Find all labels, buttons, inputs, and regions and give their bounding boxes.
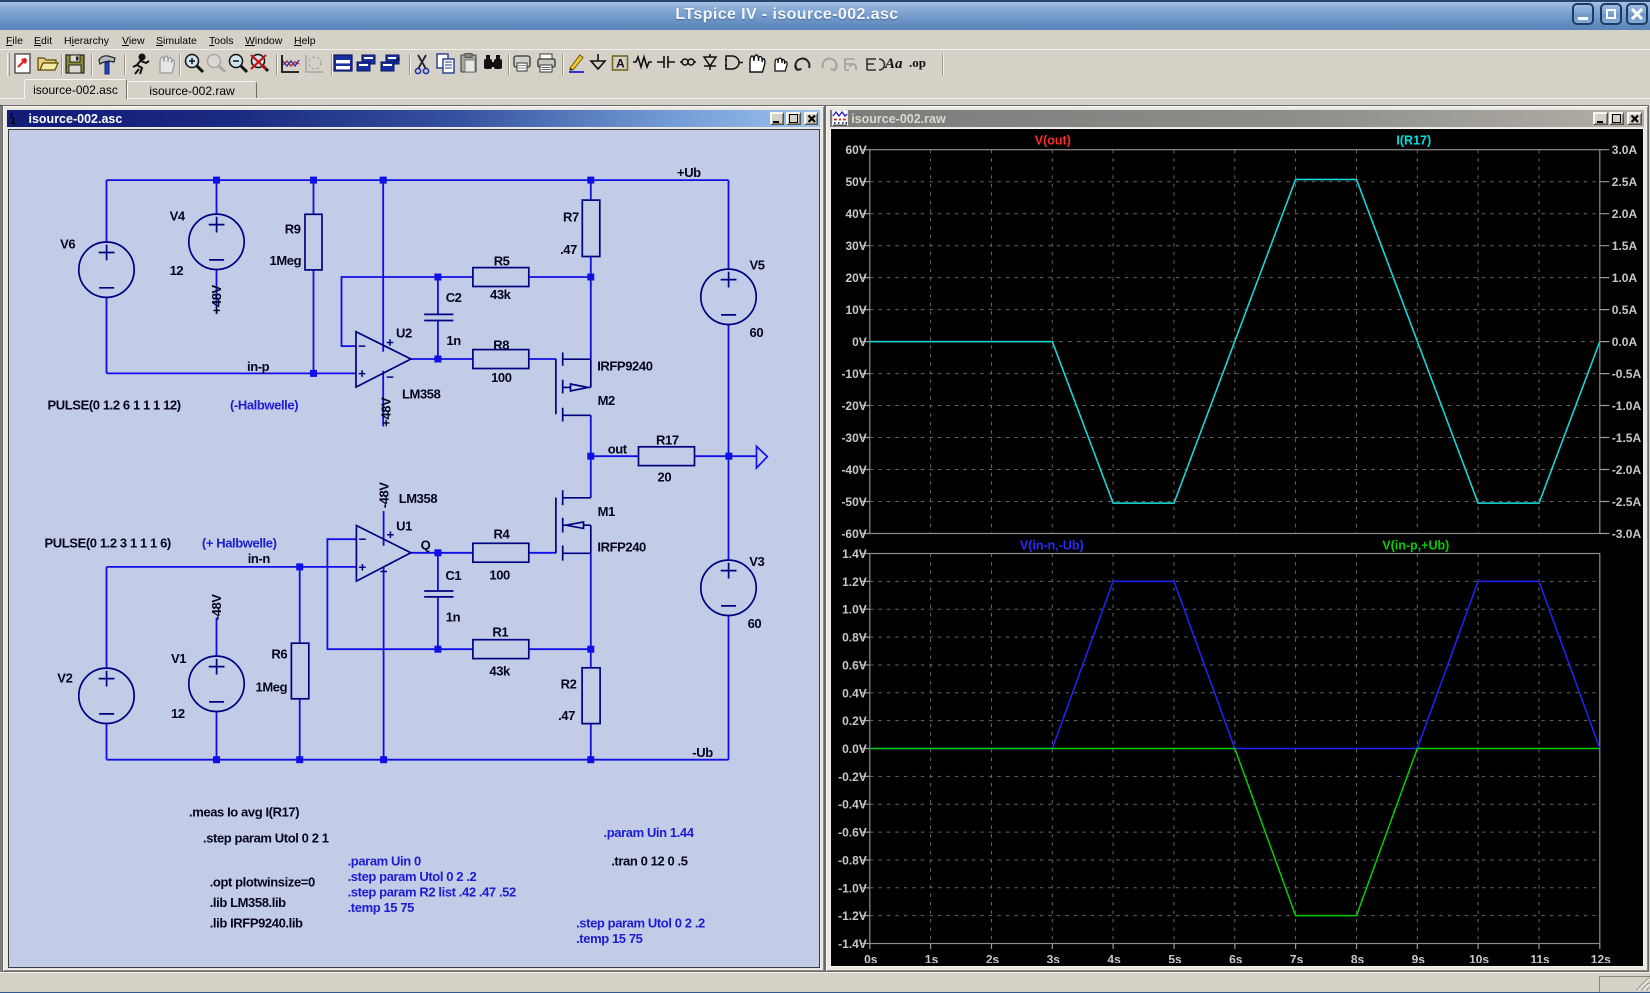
wire V4 +48V stub bbox=[215, 269, 217, 313]
svg-text:20V: 20V bbox=[846, 271, 867, 285]
svg-text:12: 12 bbox=[169, 263, 183, 278]
wire R9 top lead bbox=[312, 180, 314, 214]
svg-text:in-p: in-p bbox=[247, 359, 270, 374]
svg-text:50V: 50V bbox=[846, 175, 867, 189]
transistor M1 bbox=[555, 490, 590, 560]
axis labels pane 1 right bbox=[1612, 143, 1642, 541]
svg-text:0.0A: 0.0A bbox=[1612, 335, 1638, 349]
junction node A R5/C2/feedback bbox=[434, 274, 441, 281]
wire U1 V- down to rail bbox=[382, 567, 384, 760]
resistor R17 bbox=[638, 447, 694, 466]
svg-text:V3: V3 bbox=[749, 554, 764, 569]
op-amp U2 bbox=[356, 332, 411, 387]
resistor R8 bbox=[472, 350, 528, 369]
svg-text:0.8V: 0.8V bbox=[842, 631, 867, 645]
voltage source V4 bbox=[188, 214, 243, 269]
pane 2 border bbox=[870, 554, 1600, 944]
wire V5 bottom lead bbox=[727, 325, 729, 457]
junction M1/R1/R2 bbox=[587, 646, 594, 653]
pane 2 grid bbox=[870, 554, 1600, 944]
wire R1 right lead bbox=[528, 648, 590, 650]
wire C2 top lead bbox=[436, 277, 438, 314]
svg-text:IRFP240: IRFP240 bbox=[597, 539, 646, 554]
svg-text:out: out bbox=[607, 441, 627, 456]
junction C1/R1/feedback bbox=[434, 646, 441, 653]
svg-text:.step param Utol 0 2 1: .step param Utol 0 2 1 bbox=[203, 830, 329, 845]
svg-text:V6: V6 bbox=[60, 236, 75, 251]
junction top rail R7 bbox=[587, 177, 594, 184]
svg-text:0V: 0V bbox=[852, 335, 867, 349]
wire U1 output to R4 bbox=[410, 552, 472, 554]
junction in-p R9 bbox=[310, 370, 317, 377]
trace V(in-p,+Ub) green bbox=[870, 749, 1600, 916]
junction node R5/R7/M2 bbox=[587, 274, 594, 281]
svg-text:.meas Io avg I(R17): .meas Io avg I(R17) bbox=[189, 804, 299, 819]
trace V(out) red (hidden under I(R17)) bbox=[870, 180, 1600, 504]
wire C1 bottom lead bbox=[436, 597, 438, 649]
svg-text:M2: M2 bbox=[597, 393, 614, 408]
svg-text:-0.5A: -0.5A bbox=[1612, 367, 1642, 381]
voltage source V2 bbox=[78, 668, 133, 723]
junction out node V5/V3 bbox=[725, 453, 732, 460]
wire R6 top lead bbox=[298, 567, 300, 643]
svg-text:-30V: -30V bbox=[842, 431, 867, 445]
svg-text:R2: R2 bbox=[560, 676, 576, 691]
axis labels pane 1 left bbox=[842, 143, 867, 541]
svg-text:2.0A: 2.0A bbox=[1612, 207, 1638, 221]
svg-text:-1.2V: -1.2V bbox=[838, 909, 867, 923]
svg-text:.lib IRFP9240.lib: .lib IRFP9240.lib bbox=[209, 915, 302, 930]
svg-text:.step param Utol 0 2 .2: .step param Utol 0 2 .2 bbox=[576, 915, 705, 930]
junction node Q bbox=[434, 549, 441, 556]
wire U2 V+ pin bbox=[382, 180, 384, 352]
svg-text:PULSE(0 1.2 3 1 1 1 6): PULSE(0 1.2 3 1 1 1 6) bbox=[44, 535, 170, 550]
wire out to V3 bbox=[727, 456, 729, 560]
schematic child window bbox=[2, 105, 825, 972]
time axis labels bbox=[864, 953, 1611, 967]
svg-text:C1: C1 bbox=[445, 568, 461, 583]
svg-text:(+ Halbwelle): (+ Halbwelle) bbox=[201, 535, 276, 550]
svg-text:-50V: -50V bbox=[842, 495, 867, 509]
svg-text:100: 100 bbox=[491, 370, 512, 385]
svg-text:-1.0V: -1.0V bbox=[838, 881, 867, 895]
svg-text:.opt plotwinsize=0: .opt plotwinsize=0 bbox=[209, 874, 314, 889]
svg-text:R17: R17 bbox=[656, 432, 679, 447]
svg-text:-0.8V: -0.8V bbox=[838, 854, 867, 868]
svg-text:40V: 40V bbox=[846, 207, 867, 221]
junction rail R2 bbox=[587, 756, 594, 763]
svg-text:-0.6V: -0.6V bbox=[838, 826, 867, 840]
svg-text:5s: 5s bbox=[1169, 953, 1183, 964]
svg-text:V5: V5 bbox=[749, 257, 764, 272]
op-amp U1 bbox=[356, 526, 410, 582]
wire C1 top lead bbox=[436, 553, 438, 591]
svg-text:V(out): V(out) bbox=[1035, 134, 1071, 148]
resistor R9 bbox=[305, 214, 322, 270]
svg-text:-2.5A: -2.5A bbox=[1612, 495, 1642, 509]
svg-text:.47: .47 bbox=[558, 708, 575, 723]
wire in-p bbox=[106, 372, 356, 374]
svg-text:60: 60 bbox=[749, 325, 763, 340]
wire R7 bottom lead bbox=[589, 257, 591, 278]
svg-text:1.4V: 1.4V bbox=[842, 547, 867, 561]
wire U1 feedback bbox=[327, 539, 438, 649]
wire R5 right lead bbox=[528, 276, 590, 278]
svg-text:7s: 7s bbox=[1290, 953, 1304, 964]
svg-text:10V: 10V bbox=[846, 303, 867, 317]
svg-text:-Ub: -Ub bbox=[692, 745, 713, 760]
svg-text:Q: Q bbox=[420, 537, 430, 552]
wire V1 -48V stub bbox=[215, 618, 217, 657]
resistor R5 bbox=[472, 268, 528, 287]
junction in-n R6 bbox=[296, 563, 303, 570]
resistor R6 bbox=[291, 643, 308, 699]
svg-text:-10V: -10V bbox=[842, 367, 867, 381]
wire R17 right to port bbox=[694, 455, 756, 457]
svg-text:100: 100 bbox=[489, 567, 510, 582]
wire R5 left lead bbox=[437, 276, 472, 278]
svg-text:A: A bbox=[616, 57, 625, 71]
svg-text:C2: C2 bbox=[445, 290, 461, 305]
svg-text:V2: V2 bbox=[57, 670, 72, 685]
transistor M2 bbox=[555, 352, 590, 421]
svg-text:V4: V4 bbox=[169, 208, 185, 223]
trace I(R17) cyan bbox=[870, 180, 1600, 504]
wire R2 top lead bbox=[589, 649, 591, 668]
svg-text:I(R17): I(R17) bbox=[1397, 134, 1432, 148]
svg-text:R8: R8 bbox=[493, 337, 509, 352]
svg-text:2.5A: 2.5A bbox=[1612, 175, 1638, 189]
svg-text:4s: 4s bbox=[1108, 953, 1122, 964]
voltage source V5 bbox=[700, 269, 755, 324]
svg-text:R5: R5 bbox=[493, 253, 509, 268]
svg-text:R1: R1 bbox=[492, 624, 508, 639]
junction U2 out/C2 bbox=[434, 356, 441, 363]
svg-text:1.5A: 1.5A bbox=[1612, 239, 1638, 253]
svg-text:-1.4V: -1.4V bbox=[838, 937, 867, 951]
svg-text:+48V: +48V bbox=[378, 397, 393, 427]
svg-text:12: 12 bbox=[171, 706, 185, 721]
svg-text:0.5A: 0.5A bbox=[1612, 303, 1638, 317]
svg-text:43k: 43k bbox=[489, 663, 511, 678]
wire R4 to M1 gate bbox=[528, 552, 555, 554]
svg-text:11s: 11s bbox=[1531, 953, 1551, 964]
svg-text:30V: 30V bbox=[846, 239, 867, 253]
svg-text:U1: U1 bbox=[396, 518, 412, 533]
svg-text:V(in-p,+Ub): V(in-p,+Ub) bbox=[1382, 539, 1449, 553]
svg-text:8s: 8s bbox=[1351, 953, 1365, 964]
wire V3 bottom lead bbox=[727, 615, 729, 759]
svg-text:0.6V: 0.6V bbox=[842, 659, 867, 673]
svg-text:1.0V: 1.0V bbox=[842, 603, 867, 617]
wire U2 output to R8 bbox=[410, 358, 472, 360]
trace V(in-n,-Ub) blue bbox=[870, 581, 1600, 748]
raw child window bbox=[825, 105, 1648, 972]
voltage source V3 bbox=[700, 560, 755, 615]
wire R6 bottom lead bbox=[298, 699, 300, 760]
wire R9 bottom lead bbox=[312, 270, 314, 374]
pane 1 border bbox=[870, 150, 1600, 534]
resistor R7 bbox=[582, 200, 600, 256]
axis labels pane 2 left bbox=[838, 547, 867, 951]
svg-text:Aa: Aa bbox=[884, 56, 903, 72]
wire -Ub bottom rail bbox=[106, 759, 728, 761]
svg-text:0.0V: 0.0V bbox=[842, 742, 867, 756]
junction out node M2/M1 bbox=[587, 453, 594, 460]
wire R8 to M2 gate bbox=[528, 358, 555, 360]
wire V6 bottom to in-p bbox=[105, 297, 107, 373]
resistor R2 bbox=[582, 668, 600, 724]
svg-text:.op: .op bbox=[909, 55, 926, 70]
svg-text:LM358: LM358 bbox=[398, 491, 437, 506]
svg-text:3s: 3s bbox=[1047, 953, 1061, 964]
svg-text:1Meg: 1Meg bbox=[269, 253, 301, 268]
wire R1 left lead bbox=[437, 648, 472, 650]
svg-text:-0.2V: -0.2V bbox=[838, 770, 867, 784]
wire +Ub top rail bbox=[106, 179, 728, 181]
svg-text:1.2V: 1.2V bbox=[842, 575, 867, 589]
svg-text:43k: 43k bbox=[490, 287, 512, 302]
svg-text:60: 60 bbox=[747, 616, 761, 631]
wire V5 top lead bbox=[727, 180, 729, 269]
svg-text:(-Halbwelle): (-Halbwelle) bbox=[230, 397, 298, 412]
svg-text:-48V: -48V bbox=[376, 482, 391, 509]
junction rail R6 bbox=[296, 756, 303, 763]
wire out down to M1 drain bbox=[589, 456, 591, 498]
wire V4 top lead bbox=[215, 180, 217, 214]
wire out node to R17 bbox=[590, 455, 638, 457]
svg-text:60V: 60V bbox=[846, 143, 867, 157]
wire M2 drain down bbox=[589, 415, 591, 456]
wire V2 bottom lead bbox=[105, 723, 107, 759]
voltage source V1 bbox=[188, 656, 243, 711]
svg-text:.step param R2 list .42 .47 .5: .step param R2 list .42 .47 .52 bbox=[347, 884, 515, 899]
resistor R4 bbox=[472, 543, 528, 562]
svg-text:0s: 0s bbox=[864, 953, 878, 964]
svg-text:-2.0A: -2.0A bbox=[1612, 463, 1642, 477]
junction rail U1 bbox=[380, 756, 387, 763]
junction top rail V4 bbox=[213, 177, 220, 184]
capacitor C1 bbox=[424, 591, 453, 597]
svg-text:.lib LM358.lib: .lib LM358.lib bbox=[209, 895, 285, 910]
svg-text:R6: R6 bbox=[271, 646, 287, 661]
wire C2 bottom lead bbox=[436, 321, 438, 359]
pane 1 grid bbox=[870, 150, 1600, 534]
wire V6 top lead bbox=[105, 180, 107, 242]
svg-text:+Ub: +Ub bbox=[677, 165, 701, 180]
svg-text:U2: U2 bbox=[396, 325, 412, 340]
svg-text:9s: 9s bbox=[1412, 953, 1426, 964]
svg-text:IRFP9240: IRFP9240 bbox=[597, 358, 653, 373]
svg-text:1.0A: 1.0A bbox=[1612, 271, 1638, 285]
wire R2 bottom lead bbox=[589, 724, 591, 760]
wire U2 feedback bbox=[341, 277, 437, 346]
voltage source V6 bbox=[78, 242, 133, 297]
svg-text:-1.0A: -1.0A bbox=[1612, 399, 1642, 413]
wire in-n bbox=[106, 566, 356, 568]
svg-text:-0.4V: -0.4V bbox=[838, 798, 867, 812]
junction top rail R9 bbox=[310, 177, 317, 184]
svg-text:V1: V1 bbox=[171, 651, 186, 666]
axis ticks bbox=[860, 150, 1609, 949]
svg-text:2s: 2s bbox=[986, 953, 1000, 964]
svg-text:.tran 0 12 0 .5: .tran 0 12 0 .5 bbox=[611, 853, 688, 868]
svg-text:-48V: -48V bbox=[209, 594, 224, 621]
svg-text:R9: R9 bbox=[284, 221, 300, 236]
output port arrow bbox=[756, 446, 767, 468]
svg-text:-1.5A: -1.5A bbox=[1612, 431, 1642, 445]
wire V1 bottom lead bbox=[215, 711, 217, 759]
svg-text:1n: 1n bbox=[445, 609, 460, 624]
svg-text:1s: 1s bbox=[925, 953, 939, 964]
wire U2 V- stub bbox=[382, 371, 384, 427]
svg-text:10s: 10s bbox=[1469, 953, 1489, 964]
svg-text:3.0A: 3.0A bbox=[1612, 143, 1638, 157]
svg-text:0.4V: 0.4V bbox=[842, 686, 867, 700]
svg-text:1Meg: 1Meg bbox=[255, 679, 287, 694]
svg-text:20: 20 bbox=[657, 469, 671, 484]
wire U1 V+ -48V stub bbox=[382, 511, 384, 546]
svg-text:R7: R7 bbox=[563, 209, 579, 224]
svg-text:M1: M1 bbox=[597, 504, 614, 519]
svg-text:.temp 15 75: .temp 15 75 bbox=[576, 931, 643, 946]
svg-text:in-n: in-n bbox=[247, 551, 270, 566]
svg-text:0.2V: 0.2V bbox=[842, 714, 867, 728]
svg-text:1n: 1n bbox=[446, 333, 461, 348]
resistor R1 bbox=[472, 640, 528, 659]
svg-text:V(in-n,-Ub): V(in-n,-Ub) bbox=[1020, 539, 1084, 553]
svg-text:-20V: -20V bbox=[842, 399, 867, 413]
svg-text:6s: 6s bbox=[1229, 953, 1243, 964]
svg-text:-3.0A: -3.0A bbox=[1612, 527, 1642, 541]
wire M1 source down bbox=[589, 553, 591, 649]
svg-text:.param Uin 0: .param Uin 0 bbox=[347, 853, 420, 868]
svg-text:R4: R4 bbox=[493, 526, 510, 541]
junction top rail U2 bbox=[379, 177, 386, 184]
junction rail V1 bbox=[213, 756, 220, 763]
wire R7 top lead bbox=[589, 180, 591, 200]
svg-text:-40V: -40V bbox=[842, 463, 867, 477]
wire node to M2 source bbox=[589, 277, 591, 359]
wire V2 top lead bbox=[105, 567, 107, 668]
capacitor C2 bbox=[424, 314, 453, 320]
svg-text:.47: .47 bbox=[560, 242, 577, 257]
svg-text:PULSE(0 1.2 6 1 1 1 12): PULSE(0 1.2 6 1 1 1 12) bbox=[47, 397, 180, 412]
svg-text:.step param Utol 0 2 .2: .step param Utol 0 2 .2 bbox=[347, 869, 476, 884]
svg-text:.param Uin 1.44: .param Uin 1.44 bbox=[603, 825, 694, 840]
svg-text:LM358: LM358 bbox=[402, 386, 441, 401]
svg-text:.temp 15 75: .temp 15 75 bbox=[347, 900, 414, 915]
svg-text:12s: 12s bbox=[1591, 953, 1611, 964]
svg-text:-60V: -60V bbox=[842, 527, 867, 541]
svg-text:+48V: +48V bbox=[209, 284, 224, 314]
